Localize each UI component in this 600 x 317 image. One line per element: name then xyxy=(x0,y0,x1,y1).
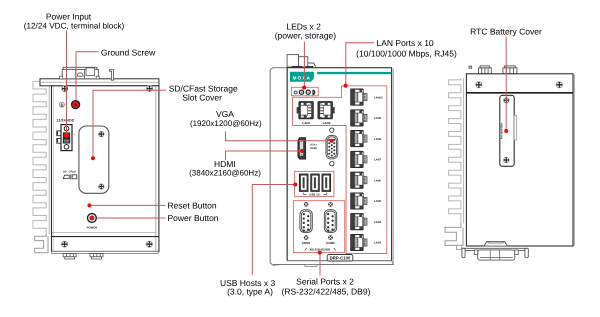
callout line: LAN ports xyxy=(346,43,374,84)
svg-text:LAN3: LAN3 xyxy=(374,242,382,245)
callout line: power input xyxy=(66,31,68,135)
svg-text:(12/24 VDC, terminal block): (12/24 VDC, terminal block) xyxy=(24,22,125,31)
svg-text:MOXA: MOXA xyxy=(293,75,312,80)
right view: bottom DB9 bump xyxy=(484,242,508,247)
LAN3-10 ports column xyxy=(351,89,367,105)
right view: DIN rail clip bottom xyxy=(445,224,463,246)
svg-text:Ground Screw: Ground Screw xyxy=(101,47,156,57)
VGA port xyxy=(330,128,334,132)
callout line: USB hosts xyxy=(252,185,293,276)
svg-text:(1920x1200@60Hz): (1920x1200@60Hz) xyxy=(190,119,262,128)
svg-text:(3.0, type A): (3.0, type A) xyxy=(227,287,273,297)
svg-text:VGA: VGA xyxy=(216,109,234,119)
callout line: SD/CFast cover xyxy=(93,90,166,156)
svg-text:-: - xyxy=(73,140,74,144)
callout line: ground screw xyxy=(76,52,99,100)
teal strip xyxy=(317,72,391,74)
right view: body xyxy=(466,74,573,246)
right view: heatsink fins xyxy=(449,78,461,223)
svg-text:LAN7: LAN7 xyxy=(374,159,382,162)
right view: top connector bumps xyxy=(469,66,517,74)
svg-text:LAN2: LAN2 xyxy=(323,121,331,125)
callout line: LEDs xyxy=(303,42,305,87)
svg-text:Serial Ports x 2: Serial Ports x 2 xyxy=(296,277,354,287)
callout line: VGA xyxy=(226,132,331,141)
svg-text:(10/100/1000 Mbps, RJ45): (10/100/1000 Mbps, RJ45) xyxy=(356,49,457,59)
svg-text:DRP-C100: DRP-C100 xyxy=(330,256,351,261)
svg-text:Slot Cover: Slot Cover xyxy=(182,92,222,102)
svg-text:RTC BATTERY: RTC BATTERY xyxy=(501,122,504,139)
power button xyxy=(88,214,97,223)
terminal clamp tabs xyxy=(57,131,61,136)
DRP-C100 model box xyxy=(327,255,353,262)
LED indicators xyxy=(294,91,297,94)
svg-text:RTC Battery Cover: RTC Battery Cover xyxy=(470,27,542,37)
svg-text:Power Button: Power Button xyxy=(168,213,219,223)
front view: left side face xyxy=(270,68,287,266)
COM1 port xyxy=(304,202,309,207)
svg-text:SD: SD xyxy=(63,170,67,173)
left view: top connector bumps xyxy=(63,67,97,69)
svg-text:LAN Ports x 10: LAN Ports x 10 xyxy=(377,38,434,48)
svg-text:LAN1: LAN1 xyxy=(302,121,310,125)
USB 3.0 label xyxy=(304,193,327,195)
callout line: reset button xyxy=(91,204,166,206)
svg-text:12/24 VDC: 12/24 VDC xyxy=(56,118,74,122)
LAN2 port (mirrored) xyxy=(318,102,335,119)
callout line: RTC battery cover xyxy=(505,37,507,130)
front view: face xyxy=(287,68,391,261)
big LAN red box polygon xyxy=(293,86,387,254)
svg-text:CFast: CFast xyxy=(69,170,76,173)
right view: RTC battery cover xyxy=(500,95,514,166)
svg-text:+: + xyxy=(73,133,75,137)
right view: bottom connector block xyxy=(478,250,515,260)
svg-text:(RS-232/422/485, DB9): (RS-232/422/485, DB9) xyxy=(282,286,371,296)
svg-text:LAN10: LAN10 xyxy=(374,96,383,99)
COM2 port xyxy=(328,202,333,207)
left view: main body xyxy=(52,86,159,252)
left view: power terminal block xyxy=(57,125,76,151)
serial box (red) xyxy=(293,201,344,253)
svg-text:LAN9: LAN9 xyxy=(374,117,382,120)
front view: bottom lip xyxy=(273,261,393,265)
svg-text:LAN6: LAN6 xyxy=(374,179,382,182)
svg-text:COM1: COM1 xyxy=(302,241,311,245)
dark marks under top bump xyxy=(292,66,314,68)
svg-text:HDMI: HDMI xyxy=(310,147,317,150)
svg-text:USB 3.0: USB 3.0 xyxy=(309,193,320,197)
USB ports x3 xyxy=(299,174,308,192)
callout line: power button xyxy=(97,217,166,219)
svg-text:LAN5: LAN5 xyxy=(374,200,382,203)
LAN1 port xyxy=(297,102,314,119)
left view: SD/CFast slot cover panel xyxy=(79,126,109,193)
left view: corner screws xyxy=(61,85,68,92)
left view: DIN bracket hook top xyxy=(110,70,114,81)
svg-text:LAN4: LAN4 xyxy=(374,221,382,224)
callout line: serial ports xyxy=(319,254,321,276)
svg-text:(3840x2160@60Hz): (3840x2160@60Hz) xyxy=(189,169,261,178)
left view: bottom connector bumps xyxy=(63,254,103,259)
left view: DIN rail clip bottom xyxy=(35,234,48,253)
svg-text:COM2: COM2 xyxy=(326,241,335,245)
svg-text:HDMI: HDMI xyxy=(214,159,236,169)
LED box (red) xyxy=(291,87,318,96)
callout line: HDMI xyxy=(226,151,301,160)
left view: top mounting plate xyxy=(40,79,159,86)
ground screw (red) xyxy=(72,101,80,109)
svg-text:(power, storage): (power, storage) xyxy=(275,31,337,41)
left view: bottom lip xyxy=(52,251,159,253)
left view: earth symbol xyxy=(59,102,64,107)
svg-text:Power Input: Power Input xyxy=(46,12,92,22)
svg-text:POWER: POWER xyxy=(87,225,98,229)
RS-232/422/485 label xyxy=(305,248,336,250)
svg-text:LAN8: LAN8 xyxy=(374,138,382,141)
left view: heatsink fins xyxy=(33,79,46,234)
front view: top connector bump xyxy=(287,55,298,67)
svg-text:Reset Button: Reset Button xyxy=(168,200,217,210)
HDMI port xyxy=(298,138,306,159)
right view: bottom bracket plate xyxy=(462,248,528,250)
MOXA logo bar xyxy=(290,72,314,82)
USB box (red) xyxy=(295,171,334,196)
